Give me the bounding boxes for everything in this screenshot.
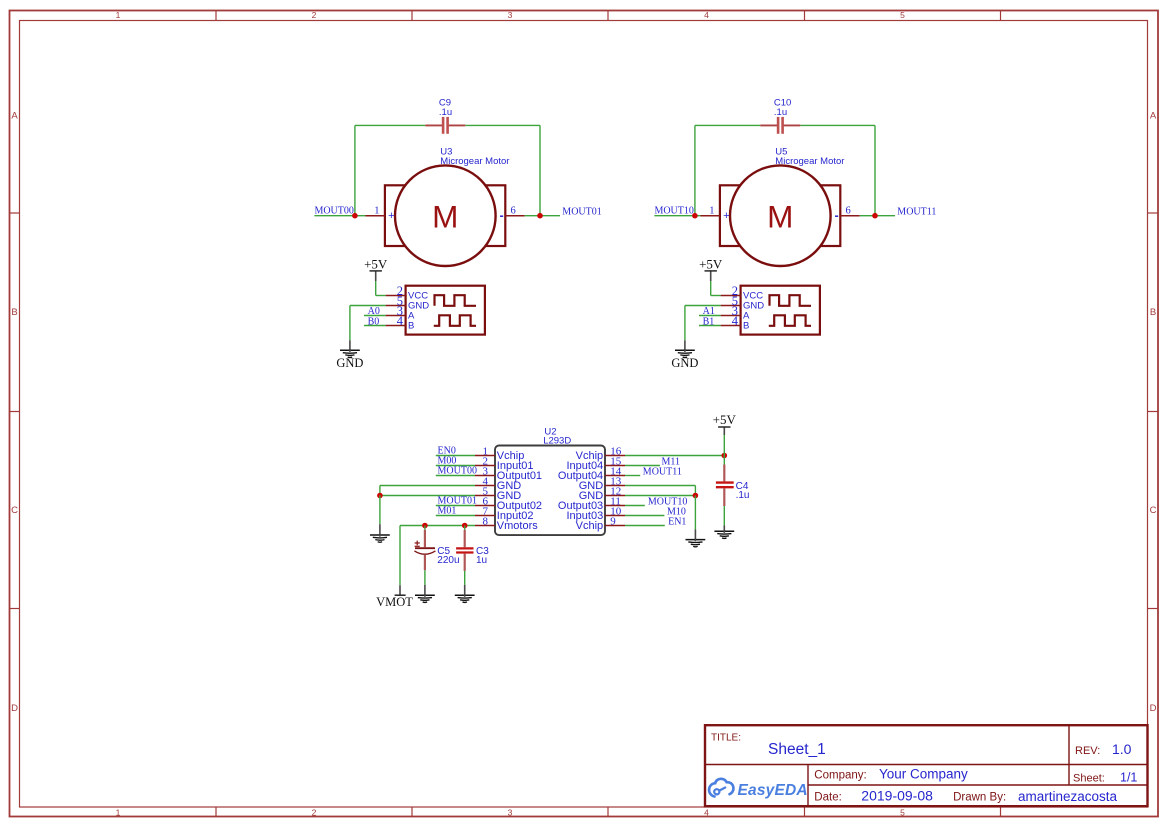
svg-text:6: 6 — [511, 206, 516, 217]
svg-text:4: 4 — [704, 10, 709, 20]
svg-text:A: A — [1150, 111, 1157, 122]
svg-text:3: 3 — [508, 808, 513, 818]
svg-text:M: M — [767, 199, 793, 235]
svg-text:TITLE:: TITLE: — [711, 733, 741, 744]
svg-text:EasyEDA: EasyEDA — [738, 782, 808, 799]
svg-text:4: 4 — [704, 808, 709, 818]
svg-text:Company:: Company: — [814, 770, 866, 782]
svg-text:1u: 1u — [476, 555, 487, 566]
svg-text:C: C — [1150, 505, 1157, 516]
svg-text:Microgear Motor: Microgear Motor — [775, 156, 844, 167]
svg-text:4: 4 — [397, 314, 404, 328]
svg-text:.1u: .1u — [736, 490, 750, 501]
svg-text:.1u: .1u — [774, 107, 787, 118]
svg-text:5: 5 — [900, 808, 905, 818]
svg-text:Sheet_1: Sheet_1 — [768, 741, 826, 758]
svg-text:1: 1 — [116, 808, 121, 818]
svg-text:+5V: +5V — [699, 256, 723, 271]
svg-text:4: 4 — [732, 314, 739, 328]
svg-text:GND: GND — [671, 356, 698, 370]
svg-text:Drawn By:: Drawn By: — [953, 791, 1006, 803]
svg-text:3: 3 — [508, 10, 513, 20]
svg-text:B0: B0 — [368, 316, 380, 327]
svg-text:M: M — [432, 199, 458, 235]
svg-text:MOUT00: MOUT00 — [438, 466, 477, 477]
svg-text:MOUT11: MOUT11 — [643, 466, 682, 477]
svg-text:.1u: .1u — [439, 107, 452, 118]
svg-text:2: 2 — [312, 808, 317, 818]
svg-text:B: B — [11, 307, 17, 318]
svg-text:220u: 220u — [437, 555, 459, 566]
svg-text:+: + — [723, 210, 729, 222]
svg-text:2019-09-08: 2019-09-08 — [861, 787, 933, 803]
svg-text:1: 1 — [709, 206, 714, 217]
svg-text:B: B — [408, 321, 414, 332]
svg-text:8: 8 — [483, 515, 489, 527]
svg-text:MOUT11: MOUT11 — [897, 207, 936, 218]
svg-text:C: C — [11, 505, 18, 516]
svg-text:GND: GND — [336, 356, 363, 370]
svg-text:1: 1 — [374, 206, 379, 217]
svg-text:5: 5 — [900, 10, 905, 20]
svg-text:Microgear Motor: Microgear Motor — [440, 156, 509, 167]
svg-text:A: A — [11, 111, 18, 122]
svg-text:D: D — [11, 703, 18, 714]
svg-text:Vchip: Vchip — [576, 520, 604, 532]
svg-text:MOUT01: MOUT01 — [562, 207, 601, 218]
svg-text:Sheet:: Sheet: — [1073, 773, 1105, 785]
svg-text:+5V: +5V — [713, 412, 737, 427]
svg-text:9: 9 — [610, 515, 616, 527]
svg-text:MOUT10: MOUT10 — [654, 205, 693, 216]
svg-text:6: 6 — [846, 206, 851, 217]
svg-text:Your Company: Your Company — [879, 767, 968, 782]
svg-text:REV:: REV: — [1075, 745, 1100, 757]
svg-text:1: 1 — [116, 10, 121, 20]
svg-text:amartinezacosta: amartinezacosta — [1018, 789, 1118, 804]
svg-text:Vmotors: Vmotors — [497, 520, 538, 532]
svg-text:B: B — [743, 321, 749, 332]
svg-text:M01: M01 — [438, 506, 457, 517]
svg-text:D: D — [1150, 703, 1157, 714]
svg-text:L293D: L293D — [543, 435, 571, 446]
svg-text:1.0: 1.0 — [1112, 741, 1132, 757]
svg-text:MOUT00: MOUT00 — [314, 205, 353, 216]
svg-text:Date:: Date: — [814, 791, 842, 803]
svg-text:2: 2 — [312, 10, 317, 20]
svg-text:VMOT: VMOT — [376, 595, 413, 609]
svg-text:B: B — [1150, 307, 1156, 318]
svg-text:EN1: EN1 — [668, 516, 686, 527]
svg-text:B1: B1 — [703, 316, 715, 327]
svg-text:1/1: 1/1 — [1120, 771, 1137, 785]
svg-text:+5V: +5V — [364, 256, 388, 271]
svg-text:+: + — [388, 210, 394, 222]
